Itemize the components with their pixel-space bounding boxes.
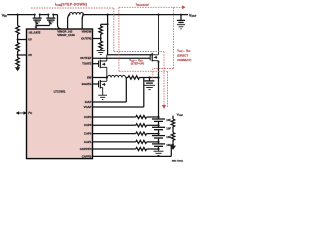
transistor Q3 TGATE FET — [93, 55, 107, 78]
svg-text:TGATE: TGATE — [82, 62, 91, 66]
wire HS_GATE pin drop — [35, 26, 37, 27]
wire VCAP kelvin right — [93, 78, 144, 108]
node stack 3 — [157, 124, 159, 126]
red dashed path ICHG step-down — [31, 8, 164, 105]
node VCAP bypass tap — [148, 76, 150, 78]
svg-text:VINGM: VINGM — [82, 30, 92, 34]
node stack 1 — [157, 141, 159, 143]
node OUTFET source — [158, 61, 160, 63]
svg-text:(DIRECT: (DIRECT — [177, 53, 188, 57]
capacitor C6 VOUT — [180, 15, 182, 20]
pin arrow into HS_GATE — [35, 27, 38, 29]
wire CAP1 to stack — [147, 141, 159, 143]
svg-text:CAP3: CAP3 — [84, 123, 92, 127]
svg-text:UV: UV — [28, 37, 32, 41]
svg-text:3351 TA01a: 3351 TA01a — [172, 159, 184, 162]
wire SW pin — [93, 77, 108, 79]
resistor R6 CAP4 — [136, 115, 147, 118]
wire rail segment inductor to VOUT — [83, 14, 188, 16]
wire VIN rail segment 1 — [7, 14, 35, 16]
node VIN divider tap — [17, 14, 19, 16]
ground below OUTFB divider — [97, 51, 105, 55]
resistor R7 CAP3 — [136, 124, 147, 127]
svg-text:CAP2: CAP2 — [84, 132, 92, 136]
capacitor C2 supercap 10F — [158, 134, 160, 136]
node L1 right — [82, 14, 84, 16]
node stack top — [157, 116, 159, 118]
wire CAPRTN pin — [93, 148, 136, 150]
inductor L1 — [69, 13, 83, 15]
resistor R12 CAPFB bottom — [171, 133, 174, 142]
wire divider drop — [17, 15, 19, 26]
chip U1 LTC3351 body — [27, 29, 93, 159]
resistor R8 CAP2 — [136, 132, 147, 135]
node rail at OUTFET — [157, 14, 159, 16]
wire divider mid — [172, 128, 174, 133]
svg-text:OUT: OUT — [187, 51, 192, 53]
wire CAPFB pin — [93, 145, 174, 157]
transistor Q4 BGATE FET — [93, 78, 107, 96]
wire OUTFET source to VCAP node — [158, 62, 160, 78]
svg-text:IN: IN — [4, 15, 7, 18]
wire CAP3 to stack — [147, 124, 159, 126]
node VOUT branch — [107, 14, 109, 16]
I2C bus double arrow — [16, 111, 27, 114]
red arrow ICHG into caps — [162, 105, 166, 109]
resistor R5 OUTFB bottom — [99, 36, 103, 50]
svg-text:CAPFB: CAPFB — [82, 154, 92, 158]
ground below VCAP bypass — [144, 85, 155, 89]
svg-text:VCAP: VCAP — [84, 105, 92, 109]
resistor R2 (UV/OV mid) — [16, 40, 20, 53]
wire CAP4 pin — [93, 116, 136, 118]
svg-text:CAPRTN: CAPRTN — [80, 147, 92, 151]
wire VCAP sense stub — [172, 116, 174, 119]
svg-text:10F: 10F — [166, 143, 171, 147]
ground below supercap stack — [154, 149, 164, 155]
resistor R9 CAP1 — [136, 140, 147, 143]
wire rail sense riser right of L1 — [82, 15, 83, 29]
transistor Q5 OUTFET direct-connect — [93, 15, 159, 63]
wire RSNS to VCAP node — [140, 77, 159, 79]
resistor RSNS — [128, 76, 139, 79]
svg-text:SW: SW — [87, 75, 92, 79]
wire CAP4 to stack — [147, 116, 159, 118]
resistor R4 OUTFB top — [99, 24, 103, 36]
svg-text:(STEP-DOWN): (STEP-DOWN) — [61, 2, 87, 6]
wire L2 to RSNS — [126, 77, 129, 79]
svg-text:ICAP: ICAP — [85, 100, 92, 104]
wire CAP3 pin — [93, 124, 136, 126]
node VOUT cap tap — [180, 14, 182, 16]
red dashed path direct connect — [153, 7, 174, 79]
svg-text:HS_GATE: HS_GATE — [29, 32, 41, 35]
wire CAP2 pin — [93, 133, 136, 135]
ground below BGATE FET — [98, 95, 107, 99]
svg-text:CAP: CAP — [179, 114, 184, 117]
capacitor C4 supercap 10F — [158, 117, 160, 119]
node stack bottom — [157, 148, 159, 150]
node divider jog — [107, 23, 109, 25]
svg-text:I²C: I²C — [28, 111, 32, 115]
red dashed path IBACKUP step-up — [119, 7, 182, 107]
transistor Q2 input FET CHG — [46, 14, 55, 26]
inductor L2 — [108, 75, 126, 77]
wire CAPRTN to stack bottom — [147, 148, 159, 150]
wire UV pin — [18, 36, 27, 40]
node VCAP power — [157, 76, 159, 78]
red arrow IBACKUP to VOUT — [182, 5, 186, 9]
svg-text:10F: 10F — [166, 118, 171, 122]
wire VOUT vertical — [107, 15, 109, 55]
svg-text:VINGP_CHG: VINGP_CHG — [57, 33, 75, 37]
svg-text:(STEP-UP): (STEP-UP) — [131, 61, 145, 65]
node stack 2 — [157, 133, 159, 135]
wire rail segment FET2 to VINGP_CHG elbow — [53, 15, 61, 29]
node UV — [17, 39, 19, 41]
capacitor C1 supercap 10F — [158, 142, 160, 144]
resistor R3 (OV bottom) — [16, 55, 20, 67]
svg-text:CAP4: CAP4 — [84, 115, 92, 119]
wire OUTFB pin — [93, 38, 101, 40]
node SW — [106, 76, 108, 78]
svg-text:OUTFB: OUTFB — [81, 37, 92, 41]
svg-text:CONNECT): CONNECT) — [177, 58, 191, 62]
wire VCAP node to stack top — [158, 78, 160, 118]
svg-text:10F: 10F — [166, 135, 171, 139]
resistor R10 CAPRTN — [136, 147, 147, 150]
svg-text:OUTFET: OUTFET — [80, 56, 91, 60]
svg-text:OV: OV — [28, 53, 32, 57]
node OV — [17, 54, 19, 56]
svg-text:LTC3351: LTC3351 — [54, 89, 66, 93]
svg-text:CAP1: CAP1 — [84, 140, 92, 144]
wire ICAP kelvin left — [93, 78, 127, 103]
wire common gate net — [36, 25, 50, 27]
svg-text:BGATE: BGATE — [82, 82, 92, 86]
wire CAP2 to stack — [147, 133, 159, 135]
node OUTFB — [100, 38, 102, 40]
node L1 left — [68, 14, 70, 16]
transistor Q1 input FET HS — [33, 14, 42, 26]
ground arrow below divider — [15, 67, 20, 71]
wire CAP1 pin — [93, 141, 136, 143]
svg-text:10F: 10F — [166, 127, 171, 131]
svg-text:BACKUP: BACKUP — [137, 4, 149, 7]
resistor R1 (UV top) — [16, 26, 20, 37]
resistor R11 CAPFB top — [171, 119, 174, 128]
wire mid rail to OUTFET drain — [107, 54, 152, 56]
ground arrow below CAPFB divider — [170, 146, 176, 150]
wire OV pin — [18, 52, 27, 55]
capacitor C3 supercap 10F — [158, 125, 160, 127]
node CAPFB — [172, 144, 174, 146]
ground below VOUT cap — [177, 25, 185, 29]
wire rail segment between FETs — [40, 14, 49, 16]
wire SW pin riser left of L1 — [68, 15, 70, 29]
capacitor C5 VCAP bypass — [149, 78, 151, 81]
svg-text:OUT: OUT — [191, 15, 197, 18]
wire jog to OUTFB divider — [101, 23, 108, 25]
